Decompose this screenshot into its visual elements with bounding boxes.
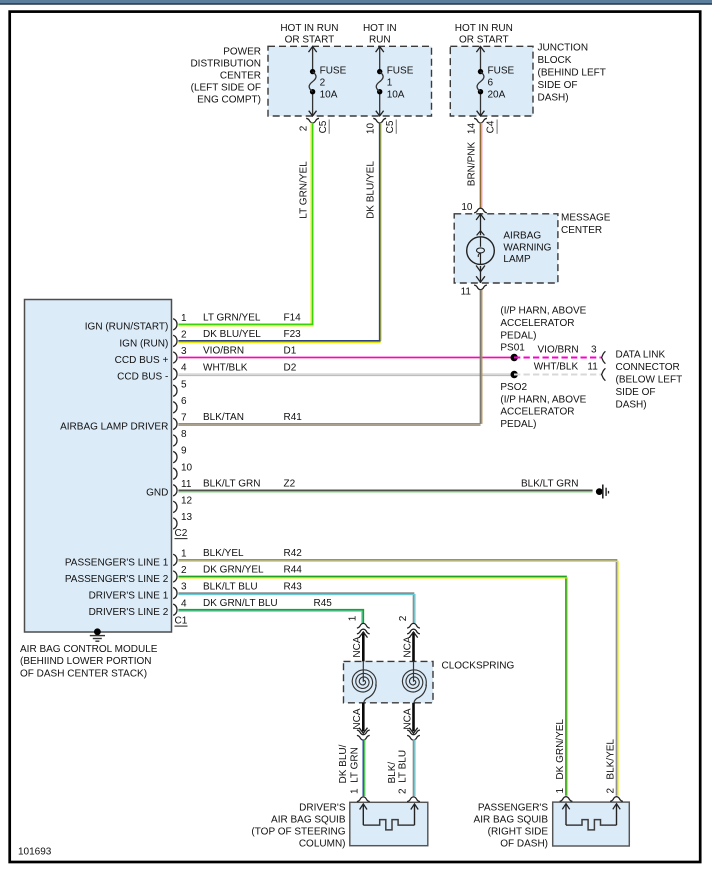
- svg-text:NCA: NCA: [402, 708, 413, 729]
- svg-text:11: 11: [587, 362, 598, 373]
- svg-text:F14: F14: [284, 313, 302, 324]
- power distribution center box: [268, 46, 432, 116]
- svg-text:R43: R43: [284, 581, 303, 592]
- svg-text:IGN (RUN): IGN (RUN): [119, 338, 168, 349]
- svg-text:101693: 101693: [18, 847, 52, 858]
- svg-text:2: 2: [299, 125, 310, 131]
- connector C5 pin 10: [366, 118, 397, 134]
- passenger squib box: [553, 802, 630, 846]
- svg-text:DASH): DASH): [538, 93, 569, 104]
- label PSO2 harness: [500, 382, 586, 430]
- clockspring NCA wire bottom 2: [402, 703, 417, 734]
- label PS01 harness: [500, 306, 586, 354]
- svg-text:DK BLU/: DK BLU/: [338, 744, 349, 783]
- svg-text:DK BLU/YEL: DK BLU/YEL: [203, 329, 261, 340]
- wire BLK/YEL R42: [178, 548, 618, 796]
- svg-text:JUNCTION: JUNCTION: [538, 43, 589, 54]
- svg-text:OR START: OR START: [285, 35, 335, 46]
- svg-text:OF DASH CENTER STACK): OF DASH CENTER STACK): [20, 668, 147, 679]
- svg-text:12: 12: [181, 496, 193, 507]
- module connector C1 pins: [65, 549, 187, 619]
- message center box: [454, 214, 558, 283]
- connector C2 label: [175, 528, 188, 539]
- svg-text:WHT/BLK: WHT/BLK: [203, 362, 248, 373]
- svg-text:FUSE: FUSE: [387, 66, 414, 77]
- svg-text:10A: 10A: [320, 90, 338, 101]
- data link connector pin 11: [602, 368, 606, 380]
- svg-text:9: 9: [181, 446, 187, 457]
- svg-text:PSO2: PSO2: [500, 382, 527, 393]
- svg-text:1: 1: [181, 313, 187, 324]
- svg-text:POWER: POWER: [223, 47, 261, 58]
- svg-text:C4: C4: [486, 120, 497, 133]
- svg-text:AIR BAG CONTROL MODULE: AIR BAG CONTROL MODULE: [20, 644, 158, 655]
- svg-text:D1: D1: [284, 346, 297, 357]
- svg-text:(BEHIIND LOWER PORTION: (BEHIIND LOWER PORTION: [20, 656, 152, 667]
- svg-text:4: 4: [181, 363, 187, 374]
- svg-text:(BELOW LEFT: (BELOW LEFT: [616, 375, 683, 386]
- svg-text:NCA: NCA: [402, 636, 413, 657]
- svg-text:DK GRN/LT BLU: DK GRN/LT BLU: [203, 598, 278, 609]
- svg-text:CLOCKSPRING: CLOCKSPRING: [442, 661, 515, 672]
- diagram id 101693: [18, 847, 52, 858]
- svg-text:AIRBAG: AIRBAG: [503, 231, 541, 242]
- svg-text:DRIVER'S LINE 1: DRIVER'S LINE 1: [89, 591, 169, 602]
- svg-text:PEDAL): PEDAL): [500, 330, 536, 341]
- svg-text:1 DK GRN/YEL: 1 DK GRN/YEL: [555, 719, 566, 794]
- driver squib element: [360, 804, 419, 830]
- passenger squib connector pin 2: [610, 797, 623, 802]
- splice PSO2: [511, 371, 518, 378]
- inline connector clockspring pin 1 (top): [348, 615, 370, 634]
- svg-text:VIO/BRN: VIO/BRN: [203, 346, 244, 357]
- junction block box: [450, 46, 533, 116]
- clockspring NCA wire bottom 1: [352, 703, 367, 734]
- connector C4 pin 14: [466, 118, 497, 134]
- svg-text:PEDAL): PEDAL): [500, 419, 536, 430]
- svg-text:2 LT BLU: 2 LT BLU: [398, 750, 409, 794]
- svg-text:Z2: Z2: [284, 479, 296, 490]
- svg-text:3: 3: [181, 346, 187, 357]
- svg-text:SIDE OF: SIDE OF: [616, 387, 656, 398]
- splice PS01: [511, 354, 518, 361]
- svg-text:PS01: PS01: [500, 343, 525, 354]
- svg-text:FUSE: FUSE: [320, 66, 347, 77]
- svg-text:HOT IN RUN: HOT IN RUN: [455, 23, 513, 34]
- svg-text:C2: C2: [175, 528, 188, 539]
- wire WHT/BLK dashed to DLC: [514, 362, 601, 375]
- svg-text:C5: C5: [318, 120, 329, 133]
- fuse 2 10A: [309, 46, 347, 116]
- svg-text:RUN: RUN: [369, 35, 391, 46]
- svg-text:DASH): DASH): [616, 400, 647, 411]
- svg-text:OF DASH): OF DASH): [500, 839, 548, 850]
- svg-text:COLUMN): COLUMN): [299, 839, 346, 850]
- svg-text:C5: C5: [385, 120, 396, 133]
- svg-text:3: 3: [181, 582, 187, 593]
- clockspring NCA wire top 1: [352, 632, 367, 661]
- svg-text:4: 4: [181, 598, 187, 609]
- svg-text:DK BLU/YEL: DK BLU/YEL: [366, 161, 377, 219]
- svg-text:BLOCK: BLOCK: [538, 55, 572, 66]
- svg-text:PASSENGER'S LINE 2: PASSENGER'S LINE 2: [65, 574, 169, 585]
- svg-text:(I/P HARN, ABOVE: (I/P HARN, ABOVE: [500, 306, 586, 317]
- svg-text:IGN (RUN/START): IGN (RUN/START): [85, 322, 169, 333]
- svg-text:(BEHIND LEFT: (BEHIND LEFT: [538, 68, 606, 79]
- ground G (right): [521, 479, 609, 499]
- wire LT GRN/YEL vertical: [299, 123, 313, 324]
- svg-text:20A: 20A: [488, 90, 506, 101]
- svg-text:FUSE: FUSE: [488, 66, 515, 77]
- connector C1 label: [175, 616, 188, 627]
- air bag control module box: [25, 300, 172, 633]
- passenger squib connector pin 1: [560, 797, 573, 802]
- svg-text:14: 14: [466, 123, 477, 135]
- svg-text:F23: F23: [284, 329, 302, 340]
- connector pin 10 message center: [461, 202, 487, 213]
- svg-text:BLK/YEL: BLK/YEL: [203, 548, 244, 559]
- svg-text:5: 5: [181, 379, 187, 390]
- svg-text:10: 10: [461, 202, 473, 213]
- svg-text:10A: 10A: [387, 90, 405, 101]
- airbag warning lamp: [467, 214, 552, 283]
- svg-text:SIDE OF: SIDE OF: [538, 80, 578, 91]
- wire DK BLU/YEL vertical: [366, 123, 382, 341]
- svg-text:CENTER: CENTER: [220, 71, 261, 82]
- svg-text:PASSENGER'S LINE 1: PASSENGER'S LINE 1: [65, 557, 169, 568]
- message center label: [561, 213, 611, 237]
- svg-text:CONNECTOR: CONNECTOR: [616, 362, 680, 373]
- data link connector pin 3: [602, 351, 606, 363]
- module ground symbol: [90, 628, 105, 641]
- svg-text:C1: C1: [175, 616, 188, 627]
- inline connector below clockspring 1: [357, 730, 370, 740]
- svg-text:DATA LINK: DATA LINK: [616, 350, 666, 361]
- svg-text:1: 1: [181, 549, 187, 560]
- driver squib label: [251, 803, 345, 850]
- svg-text:(I/P HARN, ABOVE: (I/P HARN, ABOVE: [500, 394, 586, 405]
- connector C5 pin 2: [299, 118, 330, 134]
- svg-text:MESSAGE: MESSAGE: [561, 213, 611, 224]
- svg-text:BLK/LT GRN: BLK/LT GRN: [521, 479, 578, 490]
- svg-text:HOT IN RUN: HOT IN RUN: [280, 23, 338, 34]
- svg-text:CCD BUS -: CCD BUS -: [117, 372, 168, 383]
- svg-text:ACCELERATOR: ACCELERATOR: [500, 318, 574, 329]
- svg-text:2: 2: [320, 78, 326, 89]
- wire BRN/PNK vertical: [466, 123, 482, 208]
- wire LT GRN/YEL F14: [178, 313, 313, 326]
- svg-text:1 LT GRN: 1 LT GRN: [349, 747, 360, 794]
- module connector C2 pins: [60, 313, 192, 529]
- svg-text:(RIGHT SIDE: (RIGHT SIDE: [488, 827, 549, 838]
- passenger squib element: [562, 804, 620, 830]
- clockspring label: [442, 661, 515, 672]
- svg-text:7: 7: [181, 413, 187, 424]
- svg-text:11: 11: [461, 287, 472, 298]
- svg-text:BRN/PNK: BRN/PNK: [466, 141, 477, 186]
- connector pin 11 message center: [461, 285, 487, 298]
- svg-text:OR START: OR START: [459, 35, 509, 46]
- svg-text:BLK/TAN: BLK/TAN: [203, 412, 244, 423]
- wire WHT/BLK D2: [178, 362, 514, 375]
- hot feed label 3: [455, 23, 513, 46]
- inline connector below clockspring 2: [407, 730, 420, 740]
- svg-text:2: 2: [181, 565, 187, 576]
- svg-text:DRIVER'S LINE 2: DRIVER'S LINE 2: [89, 607, 169, 618]
- svg-text:6: 6: [488, 78, 494, 89]
- wire VIO/BRN dashed to DLC: [514, 344, 601, 357]
- clockspring coil 1: [352, 661, 376, 703]
- clockspring coil 2: [402, 661, 426, 703]
- wire DK BLU/LT GRN to driver squib: [338, 739, 365, 796]
- junction block label: [538, 43, 606, 104]
- svg-text:(LEFT SIDE OF: (LEFT SIDE OF: [191, 83, 261, 94]
- fuse 1 10A: [376, 46, 414, 116]
- svg-text:HOT IN: HOT IN: [363, 23, 397, 34]
- svg-text:1: 1: [348, 615, 359, 621]
- svg-text:AIRBAG LAMP DRIVER: AIRBAG LAMP DRIVER: [60, 421, 168, 432]
- svg-text:LT GRN/YEL: LT GRN/YEL: [203, 313, 261, 324]
- wire DK GRN/LT BLU R45: [178, 598, 363, 624]
- svg-text:AIR BAG SQUIB: AIR BAG SQUIB: [474, 815, 549, 826]
- air bag control module label: [20, 644, 158, 679]
- svg-text:ENG COMPT): ENG COMPT): [197, 95, 261, 106]
- wire DK GRN/YEL R44: [178, 565, 567, 796]
- wire BLK/YEL to passenger squib label: [606, 739, 617, 794]
- svg-text:BLK/: BLK/: [387, 762, 398, 784]
- svg-text:PASSENGER'S: PASSENGER'S: [478, 803, 548, 814]
- wire BLK/TAN R41: [178, 290, 482, 426]
- wire DK BLU/YEL F23: [178, 329, 380, 342]
- svg-text:13: 13: [181, 512, 193, 523]
- svg-text:GND: GND: [146, 488, 168, 499]
- window top bar: [0, 0, 712, 5]
- svg-text:10: 10: [181, 462, 193, 473]
- svg-text:VIO/BRN: VIO/BRN: [538, 344, 579, 355]
- hot feed label 1: [280, 23, 338, 46]
- svg-text:D2: D2: [284, 362, 297, 373]
- clockspring box: [344, 661, 434, 702]
- svg-text:LAMP: LAMP: [503, 254, 531, 265]
- wire BLK/LT BLU R43: [178, 581, 415, 623]
- svg-text:DK GRN/YEL: DK GRN/YEL: [203, 565, 264, 576]
- data link connector label: [616, 350, 683, 411]
- wire BLK/LT BLU to driver squib: [387, 739, 415, 796]
- svg-text:8: 8: [181, 429, 187, 440]
- svg-text:6: 6: [181, 396, 187, 407]
- svg-text:WARNING: WARNING: [503, 242, 551, 253]
- svg-text:R44: R44: [284, 565, 303, 576]
- driver squib connector pin 1: [357, 797, 370, 802]
- svg-text:DISTRIBUTION: DISTRIBUTION: [190, 59, 261, 70]
- driver squib box: [350, 802, 428, 845]
- svg-text:CCD BUS +: CCD BUS +: [115, 355, 169, 366]
- svg-text:10: 10: [366, 123, 377, 135]
- passenger squib label: [474, 803, 549, 850]
- wire VIO/BRN D1: [178, 346, 514, 359]
- svg-text:CENTER: CENTER: [561, 225, 602, 236]
- svg-text:NCA: NCA: [352, 636, 363, 657]
- driver squib connector pin 2: [407, 797, 420, 802]
- svg-text:2: 2: [398, 615, 409, 621]
- power distribution center label: [190, 47, 261, 106]
- svg-text:2 BLK/YEL: 2 BLK/YEL: [606, 739, 617, 794]
- svg-text:R45: R45: [314, 598, 333, 609]
- svg-text:BLK/LT BLU: BLK/LT BLU: [203, 581, 258, 592]
- svg-text:11: 11: [181, 479, 192, 490]
- svg-text:ACCELERATOR: ACCELERATOR: [500, 407, 574, 418]
- hot feed label 2: [363, 23, 397, 46]
- svg-text:2: 2: [181, 330, 187, 341]
- svg-text:BLK/LT GRN: BLK/LT GRN: [203, 479, 260, 490]
- svg-text:1: 1: [387, 78, 393, 89]
- svg-text:WHT/BLK: WHT/BLK: [534, 362, 579, 373]
- svg-text:AIR BAG SQUIB: AIR BAG SQUIB: [271, 815, 346, 826]
- fuse 6 20A: [476, 46, 514, 116]
- clockspring NCA wire top 2: [402, 632, 417, 661]
- wire DK GRN/YEL to passenger squib label: [555, 719, 566, 794]
- inline connector clockspring pin 2 (top): [398, 615, 420, 634]
- svg-text:NCA: NCA: [352, 708, 363, 729]
- svg-text:(TOP OF STEERING: (TOP OF STEERING: [251, 827, 345, 838]
- wire BLK/LT GRN Z2: [178, 479, 592, 492]
- svg-text:R41: R41: [284, 412, 303, 423]
- svg-text:LT GRN/YEL: LT GRN/YEL: [299, 161, 310, 219]
- svg-text:DRIVER'S: DRIVER'S: [299, 803, 346, 814]
- svg-text:R42: R42: [284, 548, 303, 559]
- svg-text:3: 3: [591, 344, 597, 355]
